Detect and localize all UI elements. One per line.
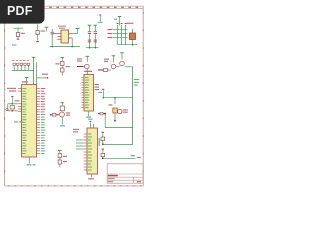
wire Q4 to right <box>125 66 133 68</box>
IC U4 left wires <box>76 140 84 149</box>
IC U1 pin names inside <box>22 88 26 154</box>
wire GND bus under U2 <box>50 46 80 48</box>
transistor Q1 <box>77 56 89 74</box>
wire lower horizontal net <box>103 157 136 159</box>
wire elbow horizontal <box>103 144 133 146</box>
IC U3 right labels <box>95 84 100 90</box>
label ANT <box>127 23 134 24</box>
wire stub into LED <box>114 98 116 104</box>
resistor R7 chain lower-left <box>58 150 67 167</box>
title block sheet text <box>137 181 141 182</box>
title block text row 2 <box>108 178 115 179</box>
IC U4 body <box>87 128 98 174</box>
junction dots cap bank <box>89 47 91 49</box>
wire U1 bottom gnd <box>28 157 30 164</box>
wire bus down to U1 <box>33 57 35 84</box>
capacitor C2 (bank column 1) <box>88 25 92 47</box>
wire VIN to U2 <box>52 33 57 35</box>
title block row line 3 <box>107 179 143 181</box>
IC U1 label <box>22 81 28 82</box>
gnd labels left of U1 <box>14 121 19 122</box>
node TP top-center stub <box>98 14 103 22</box>
IC U4 side label <box>99 138 100 146</box>
svg-text:PDF: PDF <box>7 4 33 18</box>
Q5 labels <box>123 109 128 110</box>
IC U4 top wires <box>88 119 94 128</box>
supply tee <box>32 56 36 58</box>
IC U1 top wires <box>26 78 28 85</box>
IC U1 left labels <box>7 88 16 92</box>
IC U2 voltage regulator <box>58 26 73 43</box>
antenna ladder wires vertical <box>118 25 126 45</box>
IC U4 pin names inside <box>88 134 92 171</box>
title block row line 1 <box>107 173 143 175</box>
connector JP1 pin wires <box>14 66 28 71</box>
capacitor C7 (under badge, right) <box>36 25 45 43</box>
transistor Q5 <box>118 109 122 113</box>
title block vertical divider <box>133 177 135 183</box>
supply +3V3 symbol <box>76 29 80 34</box>
MOSFET Q2 circuit <box>50 103 70 127</box>
node VCC stub <box>98 89 104 99</box>
wire LED down <box>114 113 116 121</box>
capacitor C8 stack (elbow) <box>101 132 105 145</box>
wire left side of LED box <box>104 114 106 128</box>
wire U2 output <box>73 33 78 35</box>
IC U1 body (MCU) <box>22 85 37 158</box>
gnd label U3 <box>86 117 91 118</box>
frame right border <box>142 6 144 186</box>
title block text row 3 <box>108 181 114 182</box>
capacitor C3 (bank column 2) <box>94 25 98 47</box>
transistor Q4 <box>120 53 125 66</box>
wire connector bus <box>12 70 34 72</box>
IC U3 left pins <box>82 78 85 108</box>
wire second vertical <box>36 62 38 85</box>
net label right end <box>131 155 136 156</box>
antenna ladder rungs <box>113 30 128 38</box>
resistor R5 on red input <box>98 69 111 72</box>
title block row line 2 <box>107 176 143 178</box>
capacitor C1 (regulator input) <box>51 29 54 47</box>
connector JP1 pins <box>13 63 30 65</box>
U4 bottom label <box>88 178 94 179</box>
junction dots <box>51 46 53 48</box>
frame right row ticks <box>142 12 144 185</box>
frame top inner border <box>5 8 144 10</box>
wire U4 bottom <box>91 174 93 178</box>
IC U3 pin names <box>85 77 89 108</box>
wire long vertical net <box>132 67 134 145</box>
ladder pin labels <box>108 29 113 38</box>
capacitor C9 stack (lower wire) <box>101 149 105 160</box>
frame left row ticks <box>4 12 6 185</box>
IC U1 right pins <box>37 89 41 154</box>
wire U2 pin to gnd <box>71 38 73 47</box>
net labels right <box>134 79 140 86</box>
connector JP1 pin labels <box>12 59 29 62</box>
IC U4 label <box>73 129 79 130</box>
page background <box>0 0 149 198</box>
capacitor C6 (under badge, left) <box>12 28 25 45</box>
ladder top ticks <box>117 23 127 24</box>
transistor Q3 <box>111 56 116 69</box>
IC U1 right pin labels (green lower) <box>41 114 46 154</box>
wire Q3-Q4 <box>116 66 119 68</box>
PDF badge <box>0 0 45 24</box>
frame top column ticks <box>6 6 143 8</box>
IC U3 <box>84 71 94 111</box>
title block outline <box>107 164 143 183</box>
wire cap bank gnd <box>86 47 99 49</box>
bus red input to LED box <box>98 113 105 115</box>
title block text row 1 <box>108 175 118 177</box>
frame left border <box>4 6 6 186</box>
crystal Y1 circuit <box>6 96 20 112</box>
IC U1 right pin labels (red upper) <box>41 88 46 112</box>
supply VCC above ladder <box>114 17 121 26</box>
red labels Q3 <box>104 59 109 60</box>
wire ladder gnd <box>118 44 137 46</box>
gnd label under U1 <box>27 164 32 165</box>
wire top of LED box <box>103 97 132 99</box>
frame top outer border <box>5 5 144 7</box>
supply +3V3 small tee near C7 <box>45 27 49 31</box>
resistor R1 chain <box>56 58 70 76</box>
wire branch to right <box>37 77 48 79</box>
inductor L1 (orange) <box>130 29 136 45</box>
LED D1 <box>113 108 118 113</box>
IC U4 left pins <box>84 134 88 170</box>
frame bottom column ticks <box>8 185 143 187</box>
wire U3 gnd <box>88 111 90 116</box>
LED label <box>109 104 113 105</box>
IC U1 left pins (top rows) <box>18 89 22 112</box>
wire bottom of LED box <box>105 127 132 129</box>
frame bottom border <box>5 185 144 187</box>
